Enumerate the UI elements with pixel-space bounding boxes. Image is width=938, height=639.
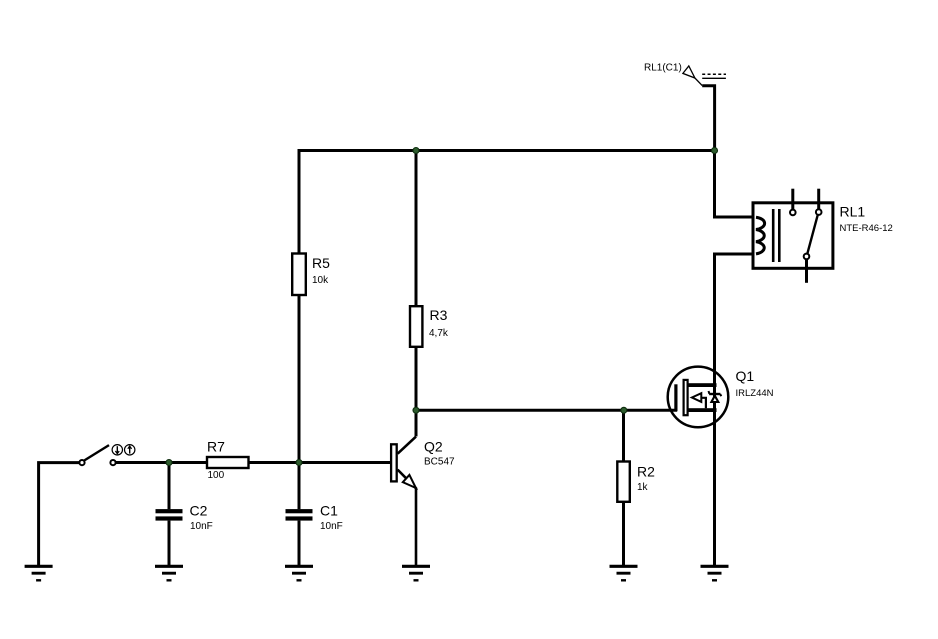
resistor R7 [207, 439, 249, 482]
svg-text:10nF: 10nF [190, 521, 213, 532]
svg-text:10nF: 10nF [320, 521, 343, 532]
capacitor C1 [286, 463, 343, 566]
svg-text:10k: 10k [312, 275, 329, 286]
wire: R5 bottom to base rail [298, 295, 301, 463]
wire: top rail to R3 [415, 151, 418, 307]
capacitor C2 [156, 463, 213, 566]
relay RL1 [753, 189, 893, 283]
svg-text:RL1: RL1 [840, 204, 866, 220]
svg-text:Q1: Q1 [736, 368, 755, 384]
ground: MOSFET source [701, 566, 729, 580]
svg-text:C1: C1 [320, 503, 338, 519]
ground: R2 [610, 566, 638, 580]
node: top rail / R3 [413, 148, 419, 154]
resistor R2 [617, 462, 655, 502]
svg-text:100: 100 [208, 470, 225, 481]
svg-text:RL1(C1): RL1(C1) [644, 63, 682, 74]
ground: Q2 emitter [402, 566, 430, 580]
wire: node to relay coil top pin [715, 151, 754, 218]
switch actuate badge down [112, 445, 122, 455]
node: gate rail / R2 [621, 407, 627, 413]
svg-text:IRLZ44N: IRLZ44N [736, 388, 774, 399]
svg-text:C2: C2 [190, 503, 208, 519]
svg-text:1k: 1k [637, 482, 649, 493]
node: gate rail / R3-collector [413, 407, 419, 413]
svg-text:R7: R7 [207, 439, 225, 455]
transistor Q2 [391, 410, 455, 565]
svg-text:R5: R5 [312, 255, 330, 271]
net label flag RL1(C1) [644, 63, 726, 86]
node: base rail / C1 / R5 [296, 460, 302, 466]
svg-text:BC547: BC547 [424, 457, 455, 468]
wire: top rail with R5 top stub [299, 151, 715, 254]
svg-text:Q2: Q2 [424, 439, 443, 455]
resistor R3 [410, 306, 449, 347]
wire: relay coil bottom pin to MOSFET drain and ground [715, 254, 754, 565]
switch actuate badge up [125, 445, 135, 455]
ground: C1 [285, 566, 313, 580]
wire: flag stub to node (top right) [702, 86, 714, 151]
switch SW1 [79, 445, 115, 465]
svg-text:NTE-R46-12: NTE-R46-12 [840, 223, 893, 234]
svg-text:R2: R2 [637, 464, 655, 480]
wire: R7 to Q2 base [249, 461, 391, 464]
switch wire and ground drop (left) [39, 463, 80, 565]
wire: gate node to R2 [622, 410, 625, 461]
ground: C2 [155, 566, 183, 580]
wire: switch to R7 [116, 461, 207, 464]
ground: switch [25, 566, 53, 580]
svg-text:4,7k: 4,7k [429, 328, 449, 339]
node: base rail / C2 [166, 460, 172, 466]
wire: R2 bottom to ground [622, 502, 625, 565]
resistor R5 [292, 254, 330, 296]
wire: gate rail [416, 409, 677, 412]
MOSFET Q1 [668, 367, 774, 428]
wire: R3 bottom to gate node [415, 347, 418, 411]
node: top rail / drain branch [712, 148, 718, 154]
svg-text:R3: R3 [430, 307, 448, 323]
